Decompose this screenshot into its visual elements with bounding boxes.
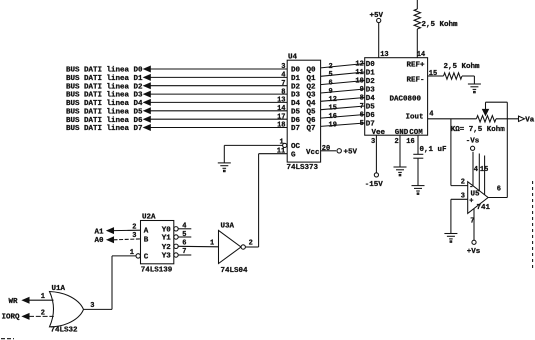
decoder output bubbles	[174, 227, 178, 258]
svg-text:15: 15	[480, 166, 488, 174]
svg-text:10: 10	[355, 78, 363, 86]
node A1 input	[95, 228, 114, 236]
svg-text:A1: A1	[95, 228, 105, 236]
svg-text:2: 2	[132, 223, 136, 231]
wire GND pin2 to ground	[399, 135, 401, 167]
node IORQ input	[2, 313, 30, 321]
wire IORQ to OR pin 2	[29, 309, 54, 317]
bus data line D0 with arrow	[66, 66, 287, 74]
wire wiper to feedback bracket	[486, 102, 508, 104]
wire COM pin16 to capacitor	[417, 135, 419, 154]
svg-text:74LS32: 74LS32	[51, 327, 79, 335]
svg-text:D0: D0	[366, 61, 376, 69]
node WR input	[9, 298, 30, 307]
power node +5V at pin 20	[337, 149, 358, 157]
op-amp pins 1 and 5 stubs	[479, 154, 484, 195]
power node +Vs	[467, 240, 481, 256]
ground at OC	[218, 145, 231, 171]
svg-text:BUS DATI linea D6: BUS DATI linea D6	[66, 117, 143, 125]
wire latch Q3 to DAC D3	[321, 89, 365, 93]
DAC bottom pin numbers 3 2 16	[371, 138, 415, 146]
ground below capacitor	[412, 186, 425, 195]
svg-text:D4: D4	[291, 100, 301, 108]
svg-text:D4: D4	[366, 95, 376, 103]
svg-text:13: 13	[380, 51, 388, 59]
svg-text:DAC0800: DAC0800	[390, 96, 422, 104]
svg-text:11: 11	[355, 69, 363, 77]
wire Iout to potentiometer	[428, 118, 477, 120]
svg-text:KΩ= 7,5 Kohm: KΩ= 7,5 Kohm	[451, 126, 506, 134]
resistor R2 2,5 Kohm at REF-	[428, 73, 475, 79]
wire A1 to decoder pin 2	[114, 223, 141, 231]
wire latch Q0 to DAC D0	[321, 64, 365, 68]
latch U4 Vcc pin 20	[306, 145, 330, 157]
latch U4 OC pin 1 with bubble	[280, 138, 301, 151]
DAC REF- label pin 15	[407, 70, 438, 85]
svg-text:A: A	[144, 228, 149, 236]
power node -Vs	[466, 138, 480, 151]
wire pin 3 to ground	[450, 199, 452, 233]
output arrow node Va	[519, 116, 535, 125]
decoder C enable bubble pin 1	[130, 249, 141, 258]
ground at op-amp pin 3	[444, 234, 457, 243]
svg-text:U1A: U1A	[52, 285, 66, 293]
value label 0,1 uF	[420, 146, 448, 154]
ground at R2	[468, 76, 481, 93]
svg-text:D7: D7	[366, 121, 375, 129]
svg-text:16: 16	[406, 138, 414, 146]
svg-text:U2A: U2A	[142, 214, 156, 222]
svg-text:3: 3	[132, 232, 136, 240]
svg-text:D3: D3	[366, 87, 376, 95]
decoder output pin numbers 4 5 6 7	[182, 223, 186, 257]
svg-text:Y3: Y3	[162, 253, 172, 261]
wire A0 to decoder pin 3	[114, 232, 141, 240]
bus data line D7 with arrow	[66, 125, 287, 133]
inverter U3A 74LS04 triangle	[219, 223, 242, 264]
svg-text:C: C	[144, 254, 149, 262]
svg-text:2: 2	[461, 178, 465, 186]
decoder output labels Y0-Y3	[162, 226, 172, 260]
svg-text:D2: D2	[291, 83, 301, 91]
wire Vcc pin20 to +5V node	[321, 150, 337, 152]
svg-text:6: 6	[497, 186, 501, 194]
svg-text:D0: D0	[291, 67, 301, 75]
svg-text:14: 14	[417, 51, 425, 59]
wire Vee pin3 to -15V	[375, 135, 377, 173]
capacitor C1 0,1 uF	[413, 154, 423, 158]
svg-text:Q0: Q0	[307, 67, 317, 75]
svg-text:D6: D6	[366, 112, 376, 120]
svg-text:BUS DATI linea D0: BUS DATI linea D0	[66, 67, 143, 75]
svg-text:15: 15	[429, 70, 437, 78]
svg-text:4: 4	[281, 72, 285, 80]
svg-text:18: 18	[277, 122, 285, 130]
wire Y1 stub	[178, 236, 191, 238]
wire Y3 stub	[178, 254, 191, 256]
wire latch Q7 to DAC D7	[321, 123, 365, 126]
svg-text:4: 4	[182, 223, 186, 231]
op-amp pin 7 stub to +Vs	[470, 209, 474, 241]
svg-text:BUS DATI linea D5: BUS DATI linea D5	[66, 108, 143, 116]
decoder U2A 74LS139 body	[141, 214, 174, 264]
svg-text:REF+: REF+	[407, 61, 426, 69]
inverter label 74LS04	[221, 267, 249, 275]
svg-text:D3: D3	[291, 92, 301, 100]
svg-text:14: 14	[277, 105, 285, 113]
svg-text:Q1: Q1	[307, 75, 317, 83]
svg-text:OC: OC	[291, 143, 301, 151]
wire Y2 to inverter input	[178, 240, 218, 248]
svg-text:COM: COM	[409, 129, 423, 137]
svg-text:74LS373: 74LS373	[287, 164, 319, 172]
svg-text:Y0: Y0	[162, 226, 172, 234]
wire latch Q4 to DAC D4	[321, 98, 365, 102]
power node +5V top	[370, 12, 384, 23]
op-amp pin 3 non-inverting input	[451, 193, 474, 206]
DAC label DAC0800	[390, 96, 422, 104]
svg-text:Q6: Q6	[307, 117, 317, 125]
svg-text:9: 9	[360, 86, 364, 94]
OR gate U1A 74LS32 body	[50, 285, 84, 327]
DAC Iout label pin 4	[406, 111, 434, 122]
latch U4 input/output labels D0-D7 Q0-Q7	[291, 67, 316, 134]
latch U4 74LS373 body	[287, 54, 320, 163]
svg-text:Q7: Q7	[307, 125, 316, 133]
svg-text:20: 20	[322, 145, 330, 153]
svg-text:7: 7	[360, 103, 364, 111]
latch U4 label 74LS373	[287, 164, 319, 172]
bus data line D6 with arrow	[66, 117, 287, 125]
wire Iout junction down to op-amp pin 2	[451, 119, 468, 186]
svg-text:3: 3	[371, 138, 375, 146]
OR gate label 74LS32	[51, 327, 79, 335]
svg-text:G: G	[291, 151, 296, 159]
latch U4 left pin numbers 3 4 7 8 13 14 17 18	[277, 63, 285, 130]
svg-text:2: 2	[395, 138, 399, 146]
bus data line D3 with arrow	[66, 91, 287, 99]
svg-text:Y1: Y1	[162, 235, 172, 243]
svg-text:74LS139: 74LS139	[141, 266, 173, 274]
svg-text:1: 1	[210, 240, 214, 248]
svg-text:0,1 uF: 0,1 uF	[420, 146, 448, 154]
svg-text:2,5 Kohm: 2,5 Kohm	[444, 63, 481, 71]
op-amp pin 4 stub to -Vs	[472, 152, 474, 186]
wire latch Q6 to DAC D6	[321, 115, 365, 119]
svg-text:Q3: Q3	[307, 92, 317, 100]
svg-text:8: 8	[281, 88, 285, 96]
wire latch Q5 to DAC D5	[321, 106, 365, 110]
svg-text:D1: D1	[291, 75, 301, 83]
svg-text:IORQ: IORQ	[2, 313, 21, 321]
svg-text:U3A: U3A	[221, 223, 235, 231]
bus data line D2 with arrow	[66, 83, 287, 91]
value label 2,5 Kohm (R1)	[422, 21, 459, 29]
svg-text:D2: D2	[366, 78, 376, 86]
svg-text:7: 7	[281, 80, 285, 88]
svg-text:D5: D5	[366, 104, 376, 112]
wire inverter output pin 2	[245, 240, 258, 248]
svg-text:4: 4	[429, 111, 433, 119]
op-amp U5 741 triangle	[468, 182, 491, 214]
svg-text:5: 5	[360, 120, 364, 128]
DAC left pin numbers 12 11 10 9 8 7 6 5	[355, 61, 363, 129]
svg-text:B: B	[144, 236, 149, 244]
svg-text:D5: D5	[291, 108, 301, 116]
ground at DAC GND pin	[394, 167, 407, 176]
svg-text:5: 5	[182, 231, 186, 239]
svg-text:U4: U4	[288, 54, 298, 62]
svg-text:Q5: Q5	[307, 108, 317, 116]
op-amp pin 6 output wire	[488, 186, 507, 198]
svg-text:7: 7	[470, 217, 474, 225]
op-amp pin 2 inverting input	[461, 178, 474, 191]
wire WR to OR pin 1	[29, 293, 54, 301]
svg-text:-15V: -15V	[365, 181, 384, 189]
wire latch Q2 to DAC D2	[321, 81, 365, 85]
wire capacitor to ground	[417, 158, 419, 185]
DAC bottom labels Vee GND COM	[372, 129, 424, 137]
svg-text:D7: D7	[291, 125, 300, 133]
svg-text:+: +	[469, 198, 473, 206]
svg-text:BUS DATI linea D2: BUS DATI linea D2	[66, 83, 143, 91]
svg-text:REF-: REF-	[407, 77, 425, 85]
wire +5V to DAC pin 13	[379, 23, 389, 60]
svg-text:17: 17	[277, 113, 285, 121]
decoder label 74LS139	[141, 266, 173, 274]
svg-text:+5V: +5V	[370, 12, 384, 20]
wire inverter output up to latch G pin 11	[259, 154, 288, 247]
potentiometer wiper arrow	[483, 104, 489, 115]
node A0 input	[95, 237, 114, 245]
svg-text:Vcc: Vcc	[306, 149, 320, 157]
wire OR output pin 3 to decoder C pin 1	[84, 256, 137, 310]
resistor R1 2,5 Kohm vertical	[414, 0, 420, 58]
svg-text:Q2: Q2	[307, 83, 317, 91]
DAC U1 DAC0800 body	[365, 58, 428, 136]
svg-text:74LS04: 74LS04	[221, 267, 249, 275]
decoder input labels A B C	[144, 228, 149, 262]
svg-text:D1: D1	[366, 70, 376, 78]
svg-text:D6: D6	[291, 117, 301, 125]
latch U4 right pin numbers 2 5 6 9 12 15 16 19	[329, 63, 337, 130]
svg-text:Iout: Iout	[406, 114, 424, 122]
svg-text:Y2: Y2	[162, 244, 172, 252]
bus data line D5 with arrow	[66, 108, 287, 116]
svg-text:8: 8	[360, 95, 364, 103]
svg-text:WR: WR	[9, 298, 19, 306]
svg-text:Vee: Vee	[372, 129, 386, 137]
svg-text:3: 3	[281, 63, 285, 71]
svg-text:741: 741	[477, 204, 491, 212]
wire feedback vertical to op-amp output	[506, 102, 508, 197]
power node -15V	[365, 173, 384, 189]
svg-text:BUS DATI linea D1: BUS DATI linea D1	[66, 75, 143, 83]
svg-text:Va: Va	[525, 117, 535, 125]
wire OC pin to ground	[224, 144, 282, 146]
svg-text:2,5 Kohm: 2,5 Kohm	[422, 21, 459, 29]
svg-text:BUS DATI linea D4: BUS DATI linea D4	[66, 100, 143, 108]
svg-text:6: 6	[360, 112, 364, 120]
inverter output bubble	[241, 245, 245, 249]
bus data line D4 with arrow	[66, 100, 287, 108]
latch U4 G pin 11	[277, 147, 296, 159]
DAC REF+ label pin 14	[407, 51, 426, 70]
page edge artifact dashes	[1, 181, 533, 339]
svg-text:1: 1	[41, 293, 45, 301]
wire Y0 stub	[178, 228, 191, 230]
svg-text:12: 12	[355, 61, 363, 69]
value label 2,5 Kohm (R2)	[444, 63, 481, 71]
svg-text:2: 2	[41, 309, 45, 317]
svg-text:13: 13	[277, 97, 285, 105]
svg-text:+Vs: +Vs	[467, 248, 481, 256]
svg-text:3: 3	[90, 302, 94, 310]
svg-text:BUS DATI linea D7: BUS DATI linea D7	[66, 125, 143, 133]
svg-text:BUS DATI linea D3: BUS DATI linea D3	[66, 92, 143, 100]
svg-text:A0: A0	[95, 237, 105, 245]
svg-text:+5V: +5V	[344, 149, 358, 157]
svg-text:GND: GND	[395, 129, 409, 137]
bus data line D1 with arrow	[66, 75, 287, 83]
svg-text:Q4: Q4	[307, 100, 317, 108]
potentiometer R3 7,5 Kohm body	[476, 116, 518, 122]
svg-text:2: 2	[249, 240, 253, 248]
op-amp top pin numbers 4 15	[474, 166, 489, 174]
value label KOhm= 7,5 Kohm	[451, 126, 506, 134]
wire latch Q1 to DAC D1	[321, 72, 365, 76]
DAC input labels D0-D7	[366, 61, 376, 129]
svg-text:-Vs: -Vs	[466, 138, 480, 146]
svg-text:4: 4	[474, 166, 478, 174]
